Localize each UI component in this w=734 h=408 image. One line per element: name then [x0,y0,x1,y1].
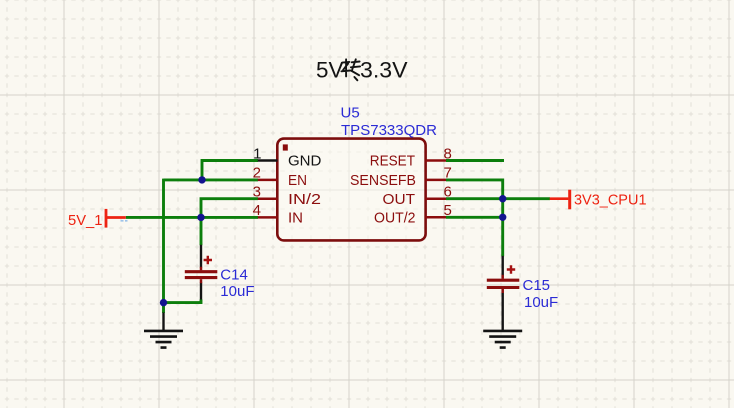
pin 2 stub [258,179,278,182]
wire C14 top lead [200,217,203,245]
wire C15 bottom lead [502,293,504,331]
power port 3V3_CPU1 [550,197,569,200]
svg-text:IN/2: IN/2 [288,191,321,208]
svg-text:SENSEFB: SENSEFB [350,172,416,189]
pin 5 stub [426,216,447,219]
pin 8 stub [426,159,447,162]
junction IN/C14 [197,214,204,221]
part marker square [283,144,288,150]
svg-text:TPS7333QDR: TPS7333QDR [341,122,437,139]
C15 plus sign [507,265,515,273]
svg-text:5V_1: 5V_1 [68,212,103,229]
title hanzi 转 (drawn strokes) [341,59,360,80]
svg-text:IN: IN [288,210,303,227]
ground symbol right [483,331,522,348]
svg-text:U5: U5 [341,105,360,122]
pin 4 stub [258,216,278,219]
wire C14 bottom link [200,283,202,301]
capacitor C14 plates [185,270,218,273]
svg-text:10uF: 10uF [524,294,558,311]
pin 3 stub [258,197,278,200]
svg-text:OUT/2: OUT/2 [374,210,416,227]
svg-text:6: 6 [444,184,452,201]
wire SENSEFB net [446,180,503,200]
svg-text:5V: 5V [316,58,344,83]
svg-text:8: 8 [444,145,452,162]
svg-text:C14: C14 [220,266,248,283]
junction EN/GND [198,176,205,183]
wire left vertical to ground [162,179,165,303]
wire OUT/2 net [446,216,503,219]
wire left ground lead [162,303,165,313]
svg-text:5: 5 [444,202,452,219]
svg-text:7: 7 [444,165,452,182]
pin 1 stub (GND) [258,159,278,162]
power port 5V_1 [105,209,108,228]
pin 7 stub [426,179,447,182]
junction OUT [499,195,506,202]
wire 5V_1 net [126,216,258,219]
op-amp U5 body TPS7333QDR [277,139,425,241]
svg-text:4: 4 [253,202,261,219]
pin 6 stub [426,197,447,200]
svg-text:RESET: RESET [370,153,415,170]
junction OUT/2 [499,214,506,221]
svg-text:10uF: 10uF [220,283,254,300]
wire IN/2 to IN [201,199,258,218]
wire OUT net to port [446,197,550,200]
capacitor C15 plates [487,279,520,282]
junction ground link [160,299,167,306]
wire RESET net [446,159,504,162]
wire EN net [164,178,259,181]
wire GND-pin1 loop [202,161,258,180]
C14 plus sign [204,256,212,264]
svg-text:3V3_CPU1: 3V3_CPU1 [574,191,647,208]
svg-text:GND: GND [288,153,322,170]
compile mark [121,220,128,222]
ground symbol left [144,331,183,348]
svg-text:2: 2 [253,165,261,182]
svg-text:EN: EN [288,172,307,189]
svg-text:C15: C15 [523,277,551,294]
wire right vertical C15 lead [501,197,504,256]
svg-text:3.3V: 3.3V [360,58,408,83]
svg-text:3: 3 [253,184,261,201]
svg-text:1: 1 [253,145,261,162]
svg-text:OUT: OUT [383,191,416,208]
